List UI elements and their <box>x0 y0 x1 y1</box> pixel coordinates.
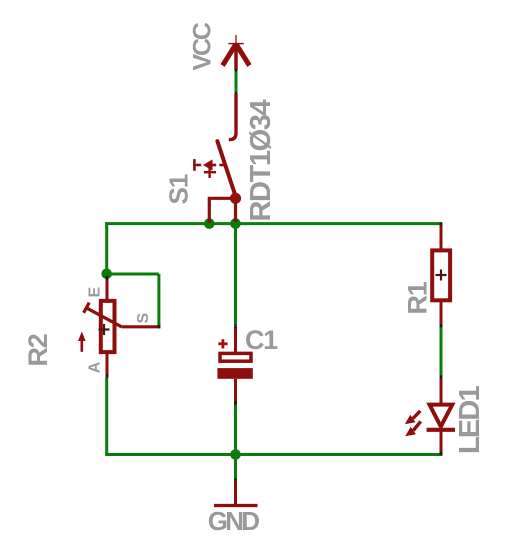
pin end tick R2 S <box>158 325 161 328</box>
pin end tick R2 A <box>106 374 109 377</box>
switch S1 actuator dagger crossbar <box>204 171 216 173</box>
potentiometer R2 body <box>101 301 115 352</box>
ground symbol bar <box>214 504 258 507</box>
resistor R1 body <box>432 250 450 300</box>
switch S1 left branch wire <box>209 198 235 223</box>
junction dot bottom net at GND <box>230 449 241 460</box>
pin end tick R1 bottom <box>440 324 443 327</box>
switch S1 actuator dash 3 <box>219 164 224 167</box>
resistor R1 top lead <box>440 225 443 249</box>
ground symbol lead <box>234 481 237 506</box>
LED1 top lead <box>440 379 443 405</box>
switch S1 pivot junction dot <box>230 193 241 204</box>
potentiometer R2 pin A lead <box>106 354 109 378</box>
switch S1 actuator T-bar <box>193 159 196 171</box>
svg-text:RDT1Ø34: RDT1Ø34 <box>245 99 277 221</box>
capacitor C1 top lead <box>234 327 237 352</box>
potentiometer R2 side arrow <box>81 340 84 352</box>
pin end tick switch top <box>235 92 238 95</box>
wire wiper loop vertical <box>157 274 160 327</box>
wire bottom horizontal net GND <box>105 453 442 456</box>
svg-text:VCC: VCC <box>189 22 217 70</box>
wire left rail upper <box>105 222 108 274</box>
svg-text:S: S <box>135 313 152 324</box>
svg-text:R2: R2 <box>23 334 53 366</box>
switch S1 actuator dagger vertical <box>208 164 210 178</box>
junction dot switch left pin on top net <box>204 218 215 229</box>
capacitor C1 top plate <box>220 353 251 361</box>
LED1 cathode bar <box>427 428 455 432</box>
switch S1 actuator dash 1 <box>194 164 201 167</box>
wire gnd stub <box>234 455 237 481</box>
switch S1 actuator arrowhead <box>203 159 213 170</box>
pin end tick C1 bottom <box>234 401 237 405</box>
svg-text:R1: R1 <box>403 281 433 314</box>
wire top horizontal net <box>105 222 442 225</box>
svg-text:C1: C1 <box>245 325 278 355</box>
switch S1 right pin stub <box>234 198 237 222</box>
pin end tick R1 top <box>440 222 443 225</box>
wire right rail (R1 to LED1) <box>440 327 443 377</box>
capacitor C1 bottom plate <box>217 368 252 379</box>
potentiometer R2 wiper diagonal <box>86 308 121 327</box>
potentiometer R2 wiper S lead <box>122 325 161 328</box>
switch S1 actuator dash 2 <box>213 164 217 167</box>
capacitor C1 bottom lead <box>234 379 237 404</box>
pin end tick LED1 bottom <box>440 452 443 455</box>
potentiometer R2 plus mark <box>99 324 110 335</box>
wire middle rail upper (to C1) <box>234 224 237 325</box>
wire vcc segment <box>235 70 238 94</box>
capacitor C1 plus mark <box>218 339 227 348</box>
switch S1 lever <box>217 141 235 196</box>
wire left rail lower <box>105 377 108 456</box>
junction dot left (node E / R2 top) <box>101 269 112 280</box>
LED1 emission arrow 1 <box>413 411 420 419</box>
resistor R1 bottom lead <box>440 300 443 326</box>
pin end tick R2 E <box>106 276 109 280</box>
switch S1 upper pin with hook <box>229 94 236 140</box>
svg-text:A: A <box>87 361 104 373</box>
wire wiper loop horizontal <box>107 273 159 276</box>
supply VCC arrow symbol <box>223 35 250 70</box>
pin end tick GND stub <box>234 479 237 482</box>
svg-text:LED1: LED1 <box>454 386 486 454</box>
pin end tick LED1 top <box>440 375 443 379</box>
junction dot switch right pin on top net <box>230 218 241 229</box>
resistor R1 plus mark <box>436 270 447 281</box>
svg-text:E: E <box>87 287 104 298</box>
LED1 triangle <box>430 405 453 427</box>
potentiometer R2 pin E lead <box>106 276 109 300</box>
svg-text:GND: GND <box>208 506 260 536</box>
pin end tick C1 top <box>234 325 237 329</box>
potentiometer R2 wiper T-bar <box>84 303 90 313</box>
LED1 emission arrow 2 <box>413 421 420 430</box>
pin end tick vcc <box>235 69 238 72</box>
svg-text:S1: S1 <box>164 174 194 204</box>
LED1 bottom lead <box>440 430 443 453</box>
wire middle rail lower (C1 to bottom) <box>234 404 237 456</box>
